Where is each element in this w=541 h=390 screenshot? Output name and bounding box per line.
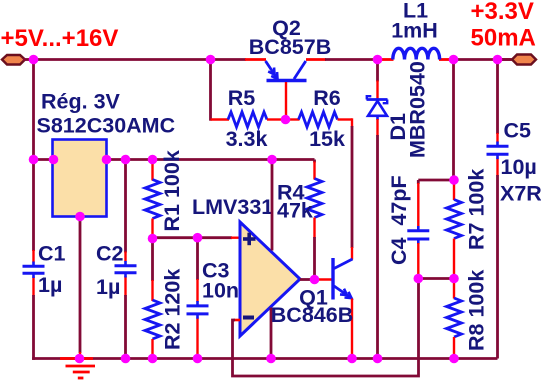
svg-text:BC857B: BC857B [249,35,331,59]
svg-text:C1: C1 [38,242,66,266]
wire op-amp V+ pin [271,160,274,251]
wire node X vertical (L1 right to R7) [418,60,453,181]
svg-text:R7 100k: R7 100k [465,169,489,250]
wire regulator ground pin [79,217,82,358]
transistor Q1 BC846B [333,258,353,357]
wire C2 branch [124,160,127,359]
wire divider mid link [418,277,454,280]
svg-text:S812C30AMC: S812C30AMC [37,114,176,138]
junction C3 top on plus input [193,233,203,243]
svg-text:R8 100k: R8 100k [465,270,489,351]
wire op-amp V- pin [270,308,273,359]
capacitor C1 [23,262,45,279]
svg-text:3.3k: 3.3k [226,127,268,151]
svg-text:C5: C5 [504,119,532,143]
resistor R6 [290,112,353,260]
capacitor C3 [187,301,209,319]
junction op-amp V- pin on ground rail [266,354,276,364]
wire top rail left [34,58,267,61]
junction C5 top [493,55,503,65]
junction op-amp output / R4 / Q1 base [310,275,320,285]
junction regulator pin VOUT [102,155,112,165]
junction R8 bottom on ground rail [449,354,459,364]
svg-text:R5: R5 [228,86,256,110]
capacitor C5 [487,142,509,160]
inductor L1 [393,48,440,59]
junction input node [29,55,39,65]
R4 labels [277,181,313,223]
junction R5 top rail [206,55,216,65]
wire input stub [23,58,34,61]
resistor R8 [447,279,462,359]
wire C5 branch [496,60,499,359]
junction R1/R2 divider node A [148,234,158,244]
svg-text:X7R: X7R [500,182,541,206]
junction R2 bottom on ground rail [148,354,158,364]
wire op-amp output [300,278,332,281]
svg-text:R6: R6 [313,86,341,110]
junction R5/R6/Q2 base node [281,115,291,125]
svg-text:+5V...+16V: +5V...+16V [1,25,119,52]
svg-text:MBR0540: MBR0540 [406,61,430,158]
C1 labels [38,242,66,298]
C3 labels [202,259,239,303]
junction ground symbol node [75,354,85,364]
svg-text:47k: 47k [277,199,313,223]
svg-text:R1 100k: R1 100k [160,150,184,231]
svg-text:Rég. 3V: Rég. 3V [41,90,121,114]
R6 labels [309,86,345,151]
C2 labels [96,242,124,300]
capacitor C4 [407,180,429,279]
resistor R5 [211,60,282,128]
regulator label [37,90,176,138]
wire op-amp minus input / feedback [233,279,419,377]
svg-text:BC846B: BC846B [271,303,353,327]
svg-text:LMV331: LMV331 [192,195,273,219]
junction output node at L1 [449,55,459,65]
svg-text:R2 120k: R2 120k [161,269,185,350]
wire op-amp plus input [153,236,241,239]
wire mid bus y=159.5 [34,158,55,161]
junction C4/R7 top node [449,175,459,185]
L1 labels [391,0,438,43]
output labels [471,0,536,52]
svg-text:50mA: 50mA [471,25,536,52]
Q1 labels [271,286,353,328]
R5 labels [226,86,268,151]
junction D1 anode on ground rail [373,354,383,364]
transistor Q2 BC857B [266,61,307,116]
svg-text:15k: 15k [309,127,345,151]
resistor R4 [307,160,322,280]
resistor R1 [145,160,160,239]
Q2 labels [249,16,331,59]
junction regulator GND pin [75,212,85,222]
input connector pad [2,55,25,65]
output connector pad [498,55,537,65]
junction op-amp V+ pin on bus [267,155,277,165]
op-amp U2 LMV331 [240,222,300,336]
svg-text:1µ: 1µ [96,275,120,299]
svg-text:+3.3V: +3.3V [471,0,534,25]
wire left vertical rail [32,60,35,360]
junction C3 bottom on ground rail [193,354,203,364]
junction Q1 emitter on ground rail [347,354,357,364]
junction C4 bottom / feedback tap [414,274,424,284]
junction regulator pin VIN [49,155,59,165]
regulator U1 S812C30AMC body [53,140,107,217]
capacitor C2 [115,261,137,278]
junction C2 top [121,155,131,165]
resistor R2 [145,239,160,359]
svg-text:1mH: 1mH [391,19,438,43]
svg-text:1µ: 1µ [38,273,62,297]
resistor R7 [447,180,462,279]
svg-text:C2: C2 [96,242,124,266]
diode D1 MBR0540 [367,60,388,359]
wire top rail right [306,58,511,61]
D1 labels [386,61,430,158]
svg-text:10µ: 10µ [501,155,537,179]
svg-text:C4 47pF: C4 47pF [387,175,411,265]
junction R1 top [148,155,158,165]
C5 labels [500,119,541,206]
wire bottom ground rail [32,357,497,360]
junction C2 bottom on ground rail [121,354,131,364]
junction R7/R8 divider node B [449,274,459,284]
wire C3 branch [196,238,199,359]
junction left rail / mid bus [29,155,39,165]
junction D1 cathode / switch node [373,55,383,65]
svg-text:10n: 10n [202,279,239,303]
ground [66,366,96,378]
